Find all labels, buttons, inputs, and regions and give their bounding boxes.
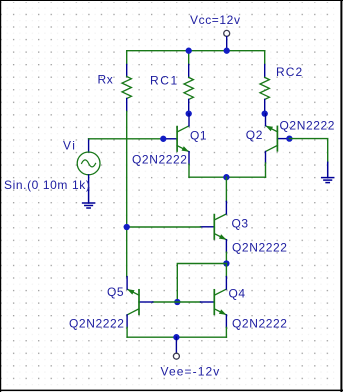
- junction Q1 base pin: [160, 136, 166, 142]
- svg-text:Q5: Q5: [107, 285, 124, 299]
- svg-text:Q1: Q1: [190, 129, 207, 143]
- wire Q2 base to right ground: [289, 139, 327, 163]
- wire Q3 base from mirror node: [127, 226, 201, 228]
- transistor Q1: [163, 114, 189, 165]
- svg-text:Q2N2222: Q2N2222: [280, 119, 336, 133]
- svg-text:Q2N2222: Q2N2222: [232, 317, 288, 331]
- resistor Rx: [122, 65, 131, 112]
- wire Q4 emitter to bottom rail: [225, 327, 227, 337]
- wire Q5 collector to bottom rail: [126, 327, 128, 337]
- transistor Q3: [201, 201, 227, 252]
- wire base rail Q5 to Q4: [153, 301, 201, 303]
- svg-text:Vee=-12v: Vee=-12v: [161, 365, 221, 379]
- wire join down to Q3 collector: [225, 177, 227, 201]
- junction RC1 top to rail: [186, 48, 192, 54]
- svg-text:Vcc=12v: Vcc=12v: [190, 13, 241, 27]
- pin Vcc port stub: [226, 37, 228, 51]
- junction Vee stub: [173, 334, 179, 340]
- wire Q3 emitter down: [225, 252, 227, 263]
- transistor Q4: [201, 277, 227, 328]
- svg-text:Q2N2222: Q2N2222: [132, 153, 188, 167]
- pin Vee port stub: [175, 337, 177, 353]
- terminal Vee port circle: [173, 353, 179, 359]
- ground below Vi: [83, 188, 95, 208]
- ground right of Q2: [322, 162, 334, 182]
- transistor Q2 (mirrored, emitter up to RC2): [266, 114, 290, 163]
- source Vi sine source: [77, 139, 100, 188]
- svg-text:Q2N2222: Q2N2222: [69, 317, 125, 331]
- junction RC2 bottom to Q2 collector: [262, 110, 268, 116]
- junction Q2 base pin: [286, 135, 292, 141]
- junction base rail T: [174, 299, 180, 305]
- transistor Q5 (mirrored, emitter up): [127, 277, 153, 328]
- svg-text:Vi: Vi: [63, 139, 76, 153]
- svg-text:Sin.(0 10m 1k): Sin.(0 10m 1k): [4, 178, 90, 192]
- svg-text:Q2: Q2: [246, 128, 263, 142]
- wire Vcc rail left drop to Rx: [126, 51, 128, 65]
- resistor RC2: [260, 65, 269, 114]
- terminal Vcc port circle: [224, 30, 230, 36]
- wire T down to Q4 collector: [225, 264, 227, 277]
- wire Rx bottom down to current mirror node: [126, 112, 128, 277]
- svg-text:RC1: RC1: [150, 74, 179, 88]
- svg-text:Q2N2222: Q2N2222: [232, 241, 288, 255]
- wire Vcc rail right drop to RC2: [264, 51, 266, 65]
- svg-text:Rx: Rx: [98, 73, 114, 87]
- wire Vcc rail horizontal: [127, 50, 265, 52]
- junction RC1 bottom to Q1 collector: [186, 110, 192, 116]
- svg-text:Q4: Q4: [229, 287, 246, 301]
- junction Vcc stub to rail: [224, 48, 230, 54]
- svg-text:RC2: RC2: [276, 65, 303, 79]
- wire Q1 emitter down: [188, 164, 190, 177]
- svg-text:Q3: Q3: [232, 217, 249, 231]
- junction mirror node T: [124, 224, 130, 230]
- junction emitters to Q3: [223, 174, 229, 180]
- resistor RC1: [184, 51, 193, 114]
- junction Q3 emitter / Q4 collector T: [223, 260, 229, 266]
- wire bottom rail: [127, 336, 226, 338]
- wire Vi plus to Q1 base: [89, 138, 164, 140]
- wire emitter join: [189, 176, 266, 178]
- wire T left then down to base rail: [177, 264, 226, 303]
- wire Q2 emitter down: [265, 163, 267, 177]
